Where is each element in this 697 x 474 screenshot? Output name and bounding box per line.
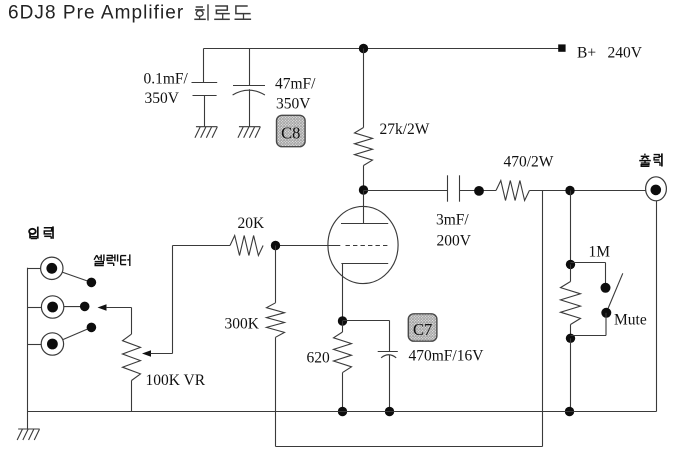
tube envelope: [328, 206, 398, 283]
svg-text:1M: 1M: [589, 243, 611, 260]
ground G3: [17, 429, 40, 440]
svg-text:6DJ8 Pre Amplifier: 6DJ8 Pre Amplifier: [8, 3, 184, 24]
wire ground rail: [28, 411, 657, 413]
svg-text:3mF/: 3mF/: [436, 211, 469, 228]
title text: [8, 3, 184, 24]
wire jack1 stub: [28, 268, 41, 270]
wire jack3 stub: [28, 344, 42, 346]
wire grid lead: [276, 245, 341, 247]
wire cathode lead: [342, 264, 344, 322]
title hangul 회: [194, 4, 208, 20]
label 1M: [589, 243, 611, 260]
selector wiper arrow: [98, 304, 132, 334]
mute contact upper: [601, 283, 611, 293]
designator box C8: [277, 115, 306, 146]
resistor 470/2W: [496, 181, 529, 201]
node plate junction: [359, 185, 368, 194]
wire output down: [656, 201, 658, 412]
svg-text:470/2W: 470/2W: [504, 153, 554, 170]
mute switch lever: [607, 273, 623, 310]
selector contact 1: [87, 278, 97, 288]
wire 27k top lead: [363, 49, 365, 128]
resistor 100K VR: [123, 334, 141, 380]
title hangul 로: [214, 6, 230, 19]
wire 1M lower lead: [570, 325, 572, 339]
terminal output jack: [646, 177, 667, 201]
svg-text:27k/2W: 27k/2W: [380, 121, 430, 138]
svg-text:100K VR: 100K VR: [146, 372, 206, 389]
wire top B+ rail: [204, 48, 562, 50]
wire VR wiper up: [172, 246, 174, 354]
label 3mF/200V: [436, 211, 472, 249]
svg-text:47mF/: 47mF/: [275, 76, 316, 93]
svg-text:20K: 20K: [238, 215, 266, 232]
node after cap: [474, 186, 484, 196]
capacitor 470mF/16V: [378, 352, 398, 358]
wire cap C8 lead: [249, 49, 251, 127]
resistor 1M: [561, 282, 581, 325]
label 출력 hangul: [639, 153, 662, 166]
wire mute bottom: [571, 313, 607, 336]
node output junction: [565, 186, 574, 195]
svg-text:B+: B+: [577, 45, 596, 62]
wire selector line 1: [62, 272, 91, 282]
wire jack2 stub: [28, 307, 42, 309]
wire 620 top lead: [342, 321, 344, 332]
capacitor 47mF/350V: [233, 86, 265, 96]
wire R470 to output: [529, 190, 645, 192]
wire cap C-a lead: [204, 49, 205, 127]
node grid junction: [271, 241, 280, 250]
wire cap to R470: [460, 190, 497, 192]
wire 300K top lead: [275, 246, 277, 303]
label B+ 240V: [577, 45, 643, 62]
terminal input jack 2: [41, 296, 63, 318]
designator box C7: [408, 314, 437, 341]
selector contact 3: [87, 323, 97, 333]
label 620: [307, 349, 331, 366]
wire 620 bottom lead: [342, 373, 344, 412]
node B+ junction: [359, 44, 368, 53]
resistor 20K: [230, 236, 263, 256]
node 620 ground: [338, 407, 347, 416]
tube grid: [346, 245, 389, 247]
wire C7 bottom lead: [389, 355, 391, 412]
tube plate: [341, 191, 388, 224]
svg-text:300K: 300K: [225, 315, 260, 332]
svg-text:240V: 240V: [608, 45, 643, 62]
title hangul 도: [235, 6, 252, 19]
label 470/2W: [504, 153, 554, 170]
label 27k/2W: [380, 121, 430, 138]
ground G2: [238, 127, 261, 138]
label 100K VR: [146, 372, 206, 389]
node 1M top: [566, 260, 575, 269]
label 47mF/350V: [275, 76, 316, 113]
wire mute top: [571, 263, 606, 288]
resistor 620: [334, 332, 352, 373]
svg-text:350V: 350V: [276, 95, 311, 112]
resistor 300K: [267, 303, 285, 338]
wire cathode to C7 cap: [343, 321, 390, 352]
selector contact 2: [80, 302, 90, 312]
VR wiper arrow: [142, 350, 173, 356]
wire plate to cap: [364, 190, 448, 192]
svg-text:Mute: Mute: [614, 312, 647, 329]
terminal input jack 3: [41, 333, 63, 355]
node C7 ground: [385, 407, 394, 416]
wire input bus: [27, 268, 29, 429]
tube cathode: [341, 263, 388, 265]
svg-text:620: 620: [307, 349, 331, 366]
capacitor 0.1mF/350V: [192, 83, 218, 96]
wire 27k bottom lead: [363, 166, 365, 191]
wire VR bottom lead: [131, 381, 133, 412]
svg-text:350V: 350V: [145, 90, 180, 107]
wire 1M upper lead: [570, 264, 572, 281]
svg-text:200V: 200V: [437, 232, 472, 249]
svg-text:C7: C7: [413, 320, 432, 339]
wire selector line 3: [63, 327, 92, 339]
label 셀렉터 hangul: [94, 254, 130, 266]
capacitor 3mF/200V: [448, 175, 460, 201]
wire 1M top lead: [570, 191, 572, 265]
wire selector line 2: [64, 306, 85, 308]
node cathode junction: [338, 316, 347, 325]
node rail right junction: [565, 407, 574, 416]
label 20K: [238, 215, 266, 232]
label 입력 hangul: [29, 226, 53, 238]
svg-text:470mF/16V: 470mF/16V: [409, 347, 485, 364]
svg-text:0.1mF/: 0.1mF/: [144, 71, 189, 88]
label 470mF/16V: [409, 347, 485, 364]
label 0.1mF/350V: [144, 71, 189, 108]
ground G1: [195, 127, 218, 138]
node 1M bottom: [566, 334, 575, 343]
resistor 27k/2W: [355, 128, 373, 166]
label 300K: [225, 315, 260, 332]
wire bottom loop: [276, 191, 543, 447]
label Mute: [614, 312, 647, 329]
wire pot to 20K: [173, 245, 231, 247]
svg-text:C8: C8: [281, 123, 300, 142]
terminal input jack 1: [41, 257, 63, 279]
wire 1M to rail: [570, 338, 572, 411]
terminal B+ square: [558, 44, 565, 51]
wire 300K bottom lead: [275, 337, 277, 446]
mute contact lower: [601, 308, 611, 318]
